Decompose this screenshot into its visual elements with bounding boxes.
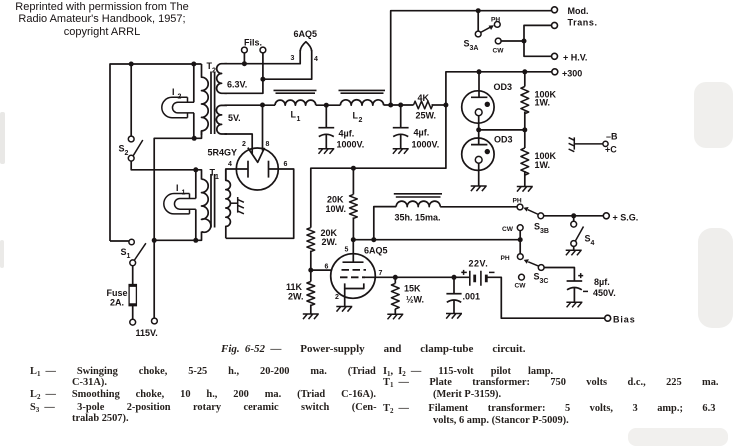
ground: T1 center tap chassis symbol bbox=[238, 197, 244, 214]
svg-text:1000V.: 1000V. bbox=[412, 140, 440, 150]
V1 anode bar bbox=[471, 96, 487, 98]
svg-text:Fils.: Fils. bbox=[244, 38, 262, 48]
transformer T1 primary winding bbox=[202, 179, 211, 232]
svg-text:1: 1 bbox=[297, 116, 301, 123]
wire: -B/+C lead bbox=[574, 143, 603, 145]
wire: S2 drop from top rail bbox=[130, 64, 132, 136]
wire: 6.3V top line to heater pin 3 bbox=[225, 50, 301, 64]
choke L1 winding bbox=[275, 100, 316, 105]
copyright notice text bbox=[8, 1, 196, 38]
terminal: Fils. right bbox=[260, 47, 266, 53]
switch S3C pole contact bbox=[538, 265, 544, 271]
node V: plate node (pin 5) bbox=[351, 237, 356, 242]
node E: T2 bottom / lamp I2 junction bbox=[192, 136, 197, 141]
svg-text:8: 8 bbox=[266, 141, 270, 148]
svg-text:2W.: 2W. bbox=[288, 292, 304, 302]
switch S2 lower contact bbox=[128, 155, 134, 161]
svg-text:CW: CW bbox=[493, 48, 505, 55]
capacitor C1 lower lead bbox=[325, 135, 327, 149]
wire: CW contact to HV/Mod junction bbox=[501, 40, 524, 42]
polarity - mark (C5) bbox=[583, 290, 588, 292]
svg-text:–B: –B bbox=[606, 132, 618, 142]
capacitor C1 4uf lead bbox=[325, 105, 327, 128]
V2 anode bar bbox=[471, 144, 487, 146]
battery B1 22V plates bbox=[470, 271, 481, 286]
capacitor C5 lower lead bbox=[573, 288, 575, 302]
svg-text:35h. 15ma.: 35h. 15ma. bbox=[395, 213, 441, 223]
switch S3B pole contact bbox=[538, 213, 544, 219]
switch S3A PH contact bbox=[494, 22, 500, 28]
capacitor C1 top plate bbox=[318, 127, 334, 129]
ground: under OD3 no.2 bbox=[471, 186, 487, 191]
transformer T2 5V winding bbox=[216, 105, 227, 134]
figure caption bbox=[221, 343, 525, 355]
wire: S3B CW drop to plate line and S3C PH bbox=[519, 231, 521, 254]
terminal: +H.V. bbox=[552, 53, 558, 59]
node U: grid node bbox=[308, 268, 313, 273]
terminal: Mod. Trans. lower bbox=[552, 22, 558, 28]
switch S4 blade bbox=[576, 227, 584, 241]
svg-text:I: I bbox=[176, 183, 179, 193]
terminal: Mod. Trans. upper bbox=[552, 7, 558, 13]
parts list right column line 2 bbox=[383, 377, 719, 388]
svg-text:Mod.: Mod. bbox=[568, 6, 589, 16]
svg-text:4: 4 bbox=[228, 161, 232, 168]
pilot lamp I1 bbox=[164, 194, 196, 214]
parts list left column line 3 bbox=[30, 389, 376, 400]
svg-text:2: 2 bbox=[178, 94, 182, 101]
wire: heater pin 4 line bbox=[263, 50, 312, 79]
svg-text:+ H.V.: + H.V. bbox=[563, 53, 587, 63]
resistor R5 20K 2W bbox=[307, 228, 315, 252]
wire: left rail corner to S1 bbox=[110, 240, 129, 242]
wire: lamp I2 lower lead drop to T2 primary bottom bbox=[193, 113, 195, 138]
terminal: -B/+C bbox=[603, 141, 608, 146]
regulator V2 OD3 envelope bbox=[462, 138, 494, 170]
ground: under C5 bbox=[566, 302, 582, 307]
switch S3C CW contact (open) bbox=[519, 274, 525, 280]
wire: 35h right lead to S3B PH bbox=[440, 206, 517, 208]
capacitor C2 curved plate bbox=[393, 134, 408, 136]
rectifier U1 5R4GY envelope bbox=[236, 148, 278, 190]
switch S3A pole contact bbox=[475, 31, 481, 37]
resistor R7 15K bbox=[394, 277, 396, 283]
V3 plate bar bbox=[343, 261, 364, 263]
node C: lamp I1 top junction bbox=[193, 167, 198, 172]
switch S4 upper contact bbox=[571, 221, 577, 227]
node B: lamp I2 drop junction on top rail bbox=[191, 62, 196, 67]
resistor R3 100K 1W lower bbox=[524, 130, 526, 148]
switch S3B CW contact bbox=[517, 225, 523, 231]
svg-text:1: 1 bbox=[215, 174, 219, 181]
switch S2 blade bbox=[133, 140, 143, 156]
svg-text:CW: CW bbox=[515, 283, 527, 290]
node F: 115V line A junction bbox=[152, 238, 157, 243]
terminal: Bias bbox=[605, 315, 611, 321]
wire: +300 rail bbox=[446, 72, 552, 105]
wire: plate line from pin5 node to S3 junction bbox=[353, 239, 520, 241]
svg-text:2: 2 bbox=[335, 294, 339, 301]
capacitor C2 4uf lead bbox=[400, 105, 402, 128]
svg-text:½W.: ½W. bbox=[406, 295, 424, 305]
node X: S4 junction on SG line bbox=[571, 213, 576, 218]
node P: OD3 drop junction on +300 rail bbox=[477, 69, 482, 74]
regulator V1 OD3 envelope bbox=[462, 91, 494, 123]
wire: S4 to ground bbox=[573, 246, 575, 250]
tube V3 6AQ5 envelope bbox=[331, 254, 376, 299]
node K: riser junction after L2 bbox=[388, 103, 393, 108]
svg-text:2: 2 bbox=[125, 150, 129, 157]
wire: Fils left drop to 6.3V top line bbox=[243, 53, 245, 64]
battery + mark bbox=[461, 270, 467, 275]
svg-text:22V.: 22V. bbox=[469, 259, 489, 269]
svg-text:1: 1 bbox=[127, 253, 131, 260]
ground: under R6 bbox=[303, 314, 319, 319]
svg-text:25W.: 25W. bbox=[416, 111, 437, 121]
V3 grid dashes row 1 bbox=[342, 269, 367, 271]
svg-text:PH: PH bbox=[513, 198, 522, 205]
wire: battery to Bias terminal bbox=[486, 277, 604, 318]
resistor R6 11K 2W bbox=[310, 270, 312, 281]
node Q: 100K drop junction on +300 rail bbox=[522, 69, 527, 74]
wire: lamp I1 upper lead drop bbox=[195, 170, 197, 199]
parts list right column line 4 bbox=[383, 403, 715, 414]
wire: pin 6 lead loop to T1 secondary bottom bbox=[226, 169, 294, 238]
ground: under C2 bbox=[393, 149, 409, 154]
wire: S4 drop stub bbox=[573, 216, 575, 222]
svg-text:6AQ5: 6AQ5 bbox=[364, 246, 388, 256]
node I: U1 pin8 drop junction on B+ line bbox=[260, 103, 265, 108]
resistor R4 20K 10W bbox=[352, 168, 354, 194]
parts list left column line 2 bbox=[72, 377, 107, 388]
svg-text:2W.: 2W. bbox=[322, 237, 338, 247]
transformer T1 HV secondary winding bbox=[226, 169, 231, 238]
wire: junction to Mod2 and +H.V. terminals bbox=[524, 25, 552, 56]
svg-text:10W.: 10W. bbox=[326, 204, 347, 214]
node AA: .001 / battery node bbox=[452, 275, 457, 280]
node S: divider mid node bbox=[522, 127, 527, 132]
wire: fuse to 115V terminal bbox=[132, 306, 134, 320]
wire: L2 to 4K resistor bbox=[384, 104, 414, 106]
parts list left column line 5 bbox=[72, 413, 129, 424]
wire: S3C pole to 8uf capacitor bbox=[544, 268, 574, 282]
switch S3C PH contact bbox=[517, 254, 523, 260]
svg-text:+ S.G.: + S.G. bbox=[613, 213, 639, 223]
svg-text:Trans.: Trans. bbox=[568, 18, 598, 28]
V1 gas dot bbox=[485, 102, 490, 107]
switch S4 lower contact bbox=[571, 241, 577, 247]
heater symbol of 6AQ5 (filament arch) bbox=[300, 42, 312, 51]
resistor R1 4K zigzag bbox=[414, 101, 433, 109]
svg-text:PH: PH bbox=[501, 255, 510, 262]
wire: riser to top rail and Mod.Trans. bbox=[391, 11, 552, 105]
switch S2 upper contact bbox=[128, 136, 134, 142]
switch S3A CW contact bbox=[495, 38, 501, 44]
capacitor C2 lower lead bbox=[400, 135, 402, 149]
capacitor C5 curved plate bbox=[567, 288, 582, 290]
wire: grid lead to 6AQ5 pin 6 bbox=[311, 269, 332, 271]
polarity + mark (C5) bbox=[578, 273, 583, 278]
faint scan smudge right margin upper bbox=[694, 82, 733, 148]
svg-text:6.3V.: 6.3V. bbox=[227, 80, 247, 90]
svg-text:I: I bbox=[172, 87, 175, 97]
node G: Fils left junction on 6.3V top line bbox=[242, 61, 247, 66]
wire: V2 cathode to ground bbox=[478, 163, 480, 186]
node H: heater pin 4 junction bbox=[260, 77, 265, 82]
svg-text:Bias: Bias bbox=[613, 315, 636, 325]
wire: T2 primary bottom lead down to 115V line A bbox=[154, 131, 201, 318]
ground: under R3 bbox=[517, 187, 533, 192]
svg-text:3A: 3A bbox=[470, 45, 479, 52]
wire: S3B pole to +S.G. terminal bbox=[544, 215, 604, 217]
node D: lamp I1 bottom junction bbox=[193, 238, 198, 243]
capacitor C5 8uf top plate bbox=[567, 280, 583, 282]
svg-text:5R4GY: 5R4GY bbox=[208, 148, 238, 158]
svg-text:6: 6 bbox=[284, 161, 288, 168]
capacitor C4 lower lead bbox=[453, 300, 455, 313]
svg-text:115V.: 115V. bbox=[136, 328, 158, 338]
choke L3 35h 15ma winding bbox=[396, 201, 440, 207]
wire: drop to OD3 no.2 anode bbox=[478, 130, 480, 145]
node R: OD3 link node bbox=[476, 127, 481, 132]
wire: S3A pole drop bbox=[477, 11, 479, 31]
svg-text:.001: .001 bbox=[463, 292, 481, 302]
svg-text:20K: 20K bbox=[327, 195, 344, 205]
node Z: 15K drop junction bbox=[393, 275, 398, 280]
wire: lamp I1 lower lead drop bbox=[195, 209, 197, 240]
wire: 115V line A to T1 primary bottom bbox=[154, 232, 201, 241]
choke L1 core lines bbox=[274, 90, 317, 93]
parts list right column line 5 bbox=[433, 415, 569, 426]
faint scan smudge left edge bbox=[0, 112, 5, 164]
wire: lamp I2 upper lead drop bbox=[193, 64, 195, 102]
wire: 115V left rail and top rail to T2 primary bbox=[110, 64, 202, 241]
node O: HV / Mod2 junction bbox=[522, 39, 527, 44]
wire: drop to OD3 no.1 bbox=[478, 72, 480, 98]
node Y: plate line / S3 junction bbox=[518, 237, 523, 242]
svg-text:5V.: 5V. bbox=[228, 113, 241, 123]
U1 pin 2 lead from 5V winding bbox=[225, 134, 253, 154]
battery - mark bbox=[489, 271, 495, 273]
svg-text:4µf.: 4µf. bbox=[414, 128, 430, 138]
transformer T2 core bbox=[211, 72, 215, 135]
capacitor C4 top plate bbox=[446, 293, 461, 295]
parts list left column line 4 bbox=[30, 402, 377, 413]
terminal: 115V lead 1 bbox=[130, 319, 136, 325]
ground: under R7 bbox=[387, 314, 403, 319]
V2 gas dot bbox=[485, 149, 490, 154]
svg-text:3C: 3C bbox=[540, 278, 549, 285]
svg-text:4µf.: 4µf. bbox=[339, 129, 355, 139]
capacitor C2 top plate bbox=[393, 127, 409, 129]
V2 cathode circle bbox=[475, 156, 482, 163]
svg-text:4: 4 bbox=[591, 240, 595, 247]
terminal: 115V lead 2 bbox=[152, 318, 158, 324]
svg-text:5: 5 bbox=[345, 247, 349, 254]
capacitor C4 curved plate bbox=[447, 300, 461, 302]
choke L3 core lines bbox=[394, 194, 442, 197]
V3 plate lead (pin 5) bbox=[352, 240, 354, 263]
switch S1 lower contact bbox=[130, 260, 136, 266]
resistor R2 100K 1W upper bbox=[524, 72, 526, 87]
wire: Fils right drop to 6.3V bottom lead bbox=[225, 53, 263, 93]
svg-text:+300: +300 bbox=[562, 69, 582, 79]
svg-text:PH: PH bbox=[491, 17, 500, 24]
node L: 4uf cap 2 junction bbox=[398, 103, 403, 108]
V1 cathode circle bbox=[475, 109, 482, 116]
pilot lamp I2 bbox=[162, 97, 194, 117]
wire: 35h choke left lead bbox=[374, 207, 396, 240]
svg-text:2A.: 2A. bbox=[110, 298, 124, 308]
U1 filament V bbox=[248, 148, 265, 163]
node J: 4uf cap 1 junction bbox=[324, 103, 329, 108]
svg-text:6AQ5: 6AQ5 bbox=[294, 29, 318, 39]
switch S1 upper contact bbox=[129, 239, 134, 244]
wire: V3 cathode to ground bbox=[344, 289, 346, 307]
terminal: +S.G. bbox=[603, 213, 609, 219]
V3 grid dashes row 2 bbox=[340, 276, 365, 278]
wire: pin 4 lead to T1 secondary top bbox=[226, 169, 248, 180]
svg-text:1W.: 1W. bbox=[535, 160, 551, 170]
capacitor C1 curved plate bbox=[319, 134, 334, 136]
wire: S1 to fuse bbox=[132, 266, 134, 285]
node T: 20K10W top junction bbox=[351, 166, 356, 171]
wire: L1 to L2 segment bbox=[316, 104, 341, 106]
U1 left plate (pin 4) bbox=[247, 161, 249, 178]
svg-text:1: 1 bbox=[182, 190, 186, 197]
wire: T1 secondary center tap lead bbox=[230, 202, 238, 204]
wire: 4K to +300 node bbox=[432, 104, 446, 106]
ground: under C1 bbox=[318, 149, 334, 154]
svg-text:15K: 15K bbox=[404, 284, 421, 294]
svg-text:4K: 4K bbox=[418, 93, 430, 103]
svg-text:1W.: 1W. bbox=[535, 98, 551, 108]
ground: under C4 bbox=[446, 314, 462, 319]
svg-text:6: 6 bbox=[325, 264, 329, 271]
switch S3B PH contact bbox=[517, 204, 523, 210]
ground: under S4 bbox=[566, 250, 582, 255]
node N: S3A drop junction on top rail bbox=[476, 8, 481, 13]
parts list right column line 3 bbox=[433, 389, 501, 400]
terminal: Fils. left bbox=[242, 47, 248, 53]
svg-text:450V.: 450V. bbox=[593, 288, 616, 298]
parts list right column line 1 bbox=[383, 366, 553, 377]
faint scan smudge bottom right bbox=[628, 428, 728, 446]
svg-text:+C: +C bbox=[605, 145, 617, 155]
wire: pin 7 line to battery bbox=[365, 276, 470, 278]
svg-text:2: 2 bbox=[359, 117, 363, 124]
transformer T2 6.3V winding bbox=[217, 64, 227, 94]
svg-text:3: 3 bbox=[291, 55, 295, 62]
choke L2 core lines bbox=[339, 90, 386, 93]
choke L2 winding bbox=[340, 100, 383, 105]
faint scan smudge right margin middle bbox=[698, 228, 733, 328]
ground: -B/+C chassis symbol bbox=[569, 137, 575, 151]
capacitor C4 .001 lead bbox=[453, 277, 455, 293]
switch S3B blade with arrow bbox=[528, 210, 539, 215]
svg-text:2: 2 bbox=[242, 141, 246, 148]
transformer T2 primary winding bbox=[202, 64, 209, 135]
transformer T1 core bbox=[211, 174, 215, 228]
svg-text:OD3: OD3 bbox=[494, 135, 513, 145]
svg-text:7: 7 bbox=[379, 270, 383, 277]
wire: S2 output to T1 primary top bbox=[131, 161, 201, 179]
wire: B+ line from 5V winding to L1 bbox=[225, 104, 276, 106]
svg-text:OD3: OD3 bbox=[494, 82, 513, 92]
node W: 35h choke drop junction bbox=[371, 237, 376, 242]
svg-text:Fuse: Fuse bbox=[107, 288, 128, 298]
svg-text:8µf.: 8µf. bbox=[594, 277, 610, 287]
svg-text:4: 4 bbox=[314, 56, 318, 63]
svg-text:CW: CW bbox=[502, 226, 514, 233]
switch S3A blade with arrow to PH bbox=[481, 27, 491, 32]
fuse F1 body bbox=[129, 285, 136, 306]
switch S3C blade with arrow bbox=[528, 262, 539, 266]
svg-text:1000V.: 1000V. bbox=[337, 140, 365, 150]
wire: screen B+ line from 4K node down and left to 20K resistors bbox=[311, 105, 446, 228]
U1 pin 8 lead to B+ line bbox=[262, 105, 264, 151]
node M: 4K output node bbox=[443, 103, 448, 108]
switch S1 blade bbox=[135, 243, 146, 260]
svg-text:2: 2 bbox=[212, 68, 216, 75]
node A: S2 drop junction on top rail bbox=[129, 62, 134, 67]
ground: under V3 cathode bbox=[336, 307, 352, 312]
svg-text:3B: 3B bbox=[540, 228, 549, 235]
wire: OD3 link to 100K divider bbox=[479, 129, 525, 131]
V3 cathode bbox=[345, 283, 364, 288]
wire: V1 cathode to node R bbox=[478, 116, 480, 130]
svg-text:11K: 11K bbox=[286, 282, 303, 292]
parts list left column line 1 bbox=[30, 366, 376, 377]
terminal: +300 bbox=[552, 69, 558, 75]
U1 right plate (pin 6) bbox=[268, 161, 270, 178]
